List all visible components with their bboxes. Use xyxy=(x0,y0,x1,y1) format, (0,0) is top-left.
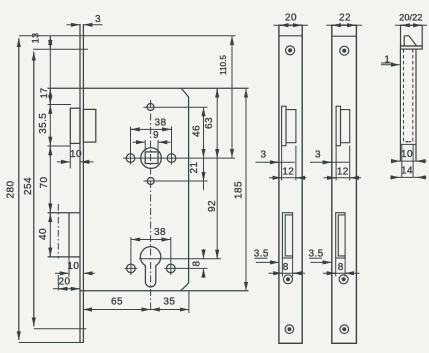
wire strip1 latch cutout extension verticals xyxy=(281,146,283,181)
dim 17 arrows xyxy=(49,89,51,99)
wire cylinder horizontal centre line xyxy=(139,258,221,260)
wire faceplate right line (main side view) xyxy=(82,24,84,343)
svg-text:65: 65 xyxy=(111,297,123,308)
screw hole middle (strip 20) xyxy=(284,275,293,284)
svg-text:1: 1 xyxy=(384,54,390,65)
latch head rectangle (edge view) xyxy=(401,25,423,46)
svg-text:17: 17 xyxy=(39,88,49,99)
dim 22 strip width xyxy=(326,24,362,26)
svg-text:10: 10 xyxy=(401,149,413,160)
dim 20/22 line xyxy=(395,24,427,26)
svg-text:185: 185 xyxy=(234,181,245,199)
wire strip1 deadbolt cutout extension verticals xyxy=(281,258,283,277)
wire cylinder screws extension verticals xyxy=(130,237,132,275)
wire latch extension line top xyxy=(48,104,71,106)
wire 10-box verticals xyxy=(401,144,403,177)
dim 65-35 bottom line xyxy=(83,309,95,311)
wire side strip cross line xyxy=(400,143,416,145)
dim 8 strip2 xyxy=(323,272,360,274)
svg-text:8: 8 xyxy=(191,260,202,266)
dim 280 line xyxy=(18,38,20,340)
dim 40 arrows xyxy=(49,213,51,223)
wire side strip right solid edge xyxy=(415,49,417,161)
latch cutout narrow rect (strip 20) xyxy=(282,106,286,146)
latch face rect (strip 20) xyxy=(286,110,296,143)
screw hole bottom (strip 20) xyxy=(285,325,294,334)
dim 38 follower spacing xyxy=(131,128,135,130)
screw hole right of cylinder xyxy=(167,264,176,273)
wire side strip right hidden line xyxy=(412,49,414,142)
dim 254 line xyxy=(33,52,35,326)
dim 10 deadbolt projection xyxy=(55,272,69,274)
svg-text:35: 35 xyxy=(163,297,175,308)
STRIP1 xyxy=(279,25,302,343)
wire deadbolt dim extension vertical xyxy=(68,257,70,277)
wire deadbolt throw extension vertical xyxy=(57,275,59,291)
wire faceplate 20 inner top line xyxy=(279,35,302,37)
dim 21 arrows xyxy=(203,171,205,181)
deadbolt cutout rect (strip 22) xyxy=(336,213,345,258)
node follower centre line (vertical dash-dot) xyxy=(150,100,152,310)
dim 9 square xyxy=(133,141,145,143)
svg-text:280: 280 xyxy=(5,181,16,199)
dim 1 underline xyxy=(381,62,393,64)
wire latch dim extension vertical xyxy=(69,143,71,168)
svg-text:38: 38 xyxy=(155,118,167,129)
deadbolt inner lines (strip 22) xyxy=(338,215,345,256)
svg-text:20: 20 xyxy=(59,277,71,288)
dim 12 strip2 xyxy=(324,177,362,179)
wire bottom screw extension line xyxy=(144,180,208,182)
lock case bottom edge xyxy=(80,290,249,292)
wire top reference line y=35.8 xyxy=(19,35,236,37)
screw hole top (strip 20) xyxy=(286,46,295,55)
lock case top edge and 185/63 extension xyxy=(48,87,249,89)
svg-text:3: 3 xyxy=(95,14,101,25)
wire side strip left hidden line xyxy=(403,49,405,142)
wire latch extension line bottom xyxy=(48,145,71,147)
faceplate 22mm front view outline xyxy=(332,25,357,343)
deadbolt cutout rect (strip 20) xyxy=(282,213,292,258)
svg-text:38: 38 xyxy=(154,227,166,238)
svg-text:3.5: 3.5 xyxy=(308,249,323,260)
dim 8 strip1 xyxy=(269,272,306,274)
dim 10 side xyxy=(391,160,427,162)
dim 20 strip width xyxy=(274,24,309,26)
svg-text:12: 12 xyxy=(282,166,294,177)
dim 70 arrows xyxy=(49,147,51,157)
svg-text:10: 10 xyxy=(70,149,82,160)
latch face rect (strip 22) xyxy=(341,110,350,143)
dim column x=50.3 (13/17/35.5/70/40) xyxy=(49,36,51,257)
svg-text:10: 10 xyxy=(67,261,79,272)
deadbolt top line xyxy=(48,212,80,214)
svg-text:110.5: 110.5 xyxy=(219,55,228,75)
svg-text:20/22: 20/22 xyxy=(399,12,422,22)
screw hole bottom (main view) xyxy=(147,178,154,185)
DIMENSIONS-MAIN xyxy=(19,25,246,340)
svg-text:46: 46 xyxy=(192,125,203,137)
wire side strip left solid edge xyxy=(399,49,401,161)
screw hole top (strip 22) xyxy=(340,46,349,55)
dim 46 line xyxy=(203,108,205,118)
dim 3 faceplate thickness xyxy=(67,24,80,26)
svg-text:254: 254 xyxy=(23,177,34,195)
svg-text:3: 3 xyxy=(315,149,321,160)
svg-text:8: 8 xyxy=(338,262,344,273)
svg-text:12: 12 xyxy=(337,166,349,177)
faceplate 20mm front view outline xyxy=(279,25,302,343)
svg-text:70: 70 xyxy=(39,177,50,189)
deadbolt thrown position phantom line xyxy=(57,204,59,259)
svg-text:63: 63 xyxy=(204,117,215,129)
svg-text:8: 8 xyxy=(283,262,289,273)
lock case top-right chamfer xyxy=(181,88,188,97)
dim 3 strip2 xyxy=(310,161,349,163)
screw hole bottom (strip 22) xyxy=(340,325,349,334)
lock case right edge xyxy=(188,97,190,283)
TEXTS-RIGHT xyxy=(254,12,423,273)
lock case bottom-right chamfer xyxy=(181,283,189,291)
dim 92 arrows xyxy=(216,249,218,259)
dim 20 deadbolt throw xyxy=(53,288,80,290)
screw hole top (main view) xyxy=(147,104,154,111)
wire faceplate 22 inner top line xyxy=(332,35,357,37)
screw hole left of cylinder xyxy=(127,264,136,273)
svg-text:3.5: 3.5 xyxy=(254,249,269,260)
wire square extension verticals xyxy=(144,140,146,151)
wire follower screws extension verticals xyxy=(130,127,132,165)
svg-text:22: 22 xyxy=(339,12,351,23)
node follower horizontal centre line xyxy=(123,157,235,159)
latch bevel diagonal xyxy=(409,36,417,46)
wire reference line y=342.5 (280 bottom) xyxy=(19,342,84,344)
svg-text:3: 3 xyxy=(261,149,267,160)
dim 14 side xyxy=(391,176,427,178)
deadbolt face line xyxy=(68,213,70,257)
dim 10 latch projection xyxy=(57,161,70,163)
svg-text:92: 92 xyxy=(207,200,218,212)
dim 63 line xyxy=(216,89,218,99)
dim 35.5 arrows xyxy=(49,105,51,115)
dim 3.5 strip2 underline xyxy=(309,257,322,259)
deadbolt bottom line xyxy=(48,256,80,258)
TEXTS-MAIN xyxy=(5,14,244,308)
STRIP2 xyxy=(332,25,357,343)
wire strip2 latch cutout extension verticals xyxy=(335,146,337,181)
op handle follower square spindle hole xyxy=(145,152,158,164)
cylinder euro profile hole xyxy=(140,247,160,287)
svg-text:13: 13 xyxy=(30,33,40,44)
dim 3 strip1 xyxy=(256,161,295,163)
wire cylinder screws horizontal ticks xyxy=(125,267,138,269)
dim 1 arrow xyxy=(381,64,400,66)
latch bolt body xyxy=(83,109,95,142)
wire case-right extension to 65/35 dim xyxy=(188,292,190,314)
wire top screw extension line xyxy=(144,106,208,108)
op handle follower circle xyxy=(141,148,162,169)
dim 3.5 strip2 arrow xyxy=(311,261,332,263)
svg-text:9: 9 xyxy=(153,130,159,141)
dim 38 cylinder screws xyxy=(131,239,135,241)
screw hole left of follower xyxy=(126,154,135,163)
svg-text:35.5: 35.5 xyxy=(38,113,49,134)
latch bevel vertical xyxy=(403,36,405,46)
SIDEVIEW xyxy=(400,25,422,177)
svg-text:40: 40 xyxy=(38,228,49,240)
latch cutout narrow rect (strip 22) xyxy=(336,106,340,146)
wire reference line y=328.7 (254 variant bottom) xyxy=(34,328,87,330)
wire reference line y=49.3 (254 variant top) xyxy=(33,48,88,50)
svg-text:14: 14 xyxy=(401,166,413,177)
latch bevel top xyxy=(404,35,409,37)
dim 13 arrows xyxy=(49,36,51,47)
svg-text:21: 21 xyxy=(189,162,200,174)
wire side strip hidden-line end arrows xyxy=(404,141,408,143)
svg-text:20: 20 xyxy=(285,12,297,23)
deadbolt inner lines (strip 20) xyxy=(285,215,292,256)
dim 12 strip1 xyxy=(269,177,307,179)
dim 3.5 strip1 arrow xyxy=(256,261,279,263)
wire faceplate left line (main side view) xyxy=(79,24,81,343)
faceplate flange (edge view) xyxy=(401,46,423,49)
screw hole right of follower xyxy=(167,154,176,163)
screw hole middle (strip 22) xyxy=(339,275,348,284)
wire strip2 deadbolt cutout extension verticals xyxy=(335,258,337,277)
latch bolt head xyxy=(70,108,80,143)
dim 110.5 line xyxy=(231,36,233,46)
dim 8 cylinder-screw offset xyxy=(203,249,205,258)
dim 3.5 strip1 underline xyxy=(255,257,268,259)
dim 185 line xyxy=(245,89,247,99)
